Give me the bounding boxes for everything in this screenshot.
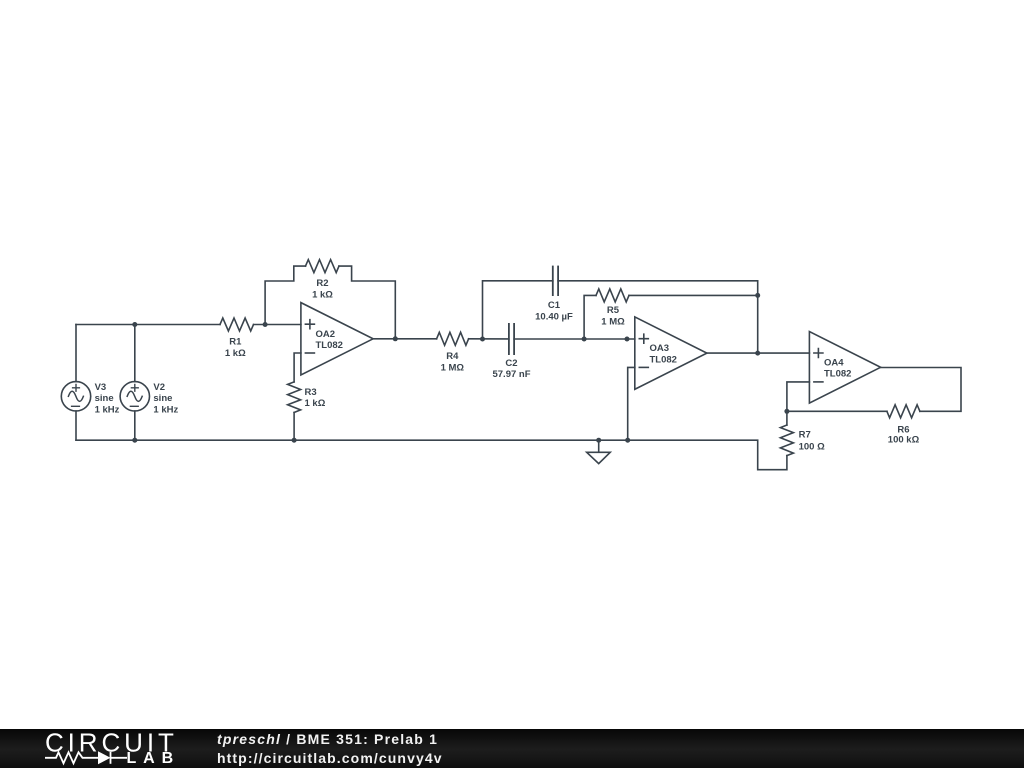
svg-text:R5: R5 (607, 305, 620, 316)
svg-text:R4: R4 (446, 351, 459, 362)
svg-text:100 Ω: 100 Ω (799, 442, 825, 453)
svg-text:1 MΩ: 1 MΩ (441, 362, 465, 373)
svg-text:OA4: OA4 (824, 357, 844, 368)
svg-text:OA2: OA2 (316, 329, 336, 340)
svg-text:R2: R2 (316, 278, 328, 289)
svg-text:1 kΩ: 1 kΩ (312, 289, 333, 300)
svg-text:V2: V2 (153, 382, 165, 393)
svg-text:57.97 nF: 57.97 nF (492, 369, 530, 380)
svg-text:TL082: TL082 (316, 340, 343, 351)
svg-text:1 kΩ: 1 kΩ (225, 348, 246, 359)
svg-text:100 kΩ: 100 kΩ (888, 435, 920, 446)
svg-text:V3: V3 (95, 382, 107, 393)
svg-text:LAB: LAB (127, 750, 181, 767)
svg-text:1 kHz: 1 kHz (95, 404, 120, 415)
svg-text:1 MΩ: 1 MΩ (601, 317, 625, 328)
svg-text:1 kHz: 1 kHz (153, 404, 178, 415)
svg-text:TL082: TL082 (824, 369, 851, 380)
svg-text:10.40 µF: 10.40 µF (535, 312, 573, 323)
svg-text:R7: R7 (799, 429, 811, 440)
svg-text:sine: sine (153, 393, 172, 404)
svg-text:TL082: TL082 (650, 354, 677, 365)
svg-text:OA3: OA3 (650, 343, 670, 354)
svg-text:R1: R1 (229, 337, 242, 348)
svg-text:1 kΩ: 1 kΩ (305, 398, 326, 409)
svg-text:C2: C2 (505, 358, 517, 369)
svg-text:C1: C1 (548, 300, 561, 311)
svg-text:R3: R3 (305, 387, 317, 398)
svg-text:sine: sine (95, 393, 114, 404)
